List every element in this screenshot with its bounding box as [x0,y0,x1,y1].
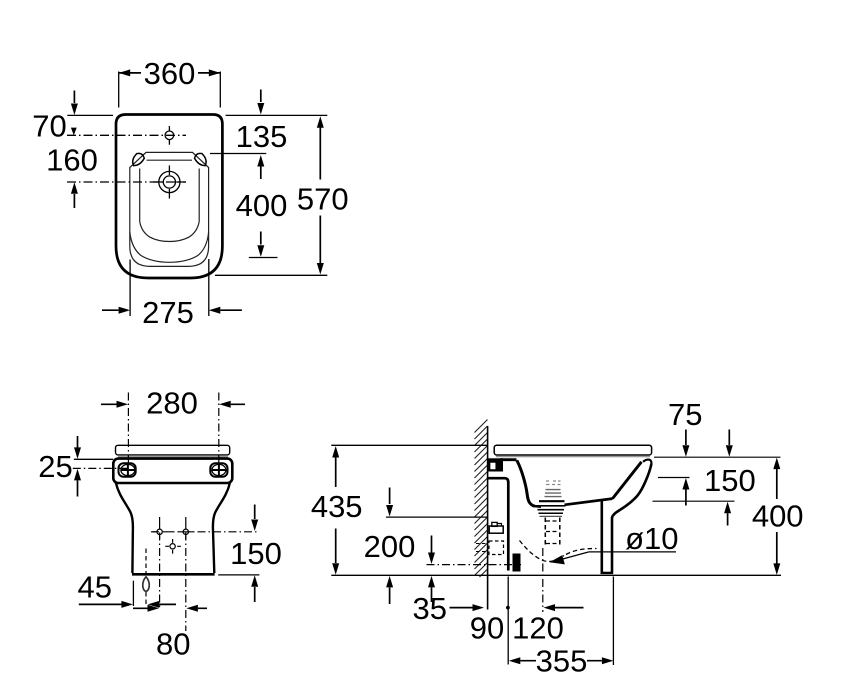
svg-text:360: 360 [144,56,196,91]
pedestal right side [213,483,230,573]
dim 75 up arrow [682,478,689,506]
dim 70 down arrow [71,91,78,116]
svg-text:135: 135 [236,119,288,154]
dim 570 bottom extension line [215,274,327,276]
extension line below pedestal front [507,577,509,665]
horizontal dash-dot through fixing holes [151,531,259,533]
leg left wall [600,501,603,573]
drain flange body bars [536,505,566,507]
svg-text:120: 120 [512,611,564,646]
node dot [506,606,510,610]
vertical dash-dot right fixing [185,517,187,631]
svg-text:280: 280 [146,386,198,421]
svg-text:150: 150 [230,536,282,571]
right top extension line [226,114,328,116]
svg-text:80: 80 [156,627,190,662]
lid shadow line [118,456,228,458]
dim 45 arrows [121,601,159,608]
flare outer edge [612,464,651,518]
svg-text:ø10: ø10 [625,521,678,556]
dim 45 extension line [132,581,134,606]
back notch (white) [490,462,497,470]
bolt hole right [210,463,227,477]
bowl seat curve [140,222,200,242]
wall face line [487,426,489,610]
line B deck extension [658,477,690,479]
dim 435 top arrow [332,446,339,487]
svg-text:45: 45 [77,570,111,605]
hidden trap dashed curve [520,541,597,562]
body top band [113,459,232,483]
svg-text:400: 400 [236,188,288,223]
vertical dash-dot left fixing [159,517,161,609]
rim slab shadow line [496,456,650,458]
chamfer facet left [133,153,145,165]
svg-text:355: 355 [536,644,588,679]
pedestal bottom extension (front right) [218,574,259,576]
leg right wall [611,517,614,572]
small crosshair (fixing hole) [165,126,174,145]
dim 280 arrows [117,401,231,408]
dim 35 down arrow [428,536,435,565]
dim 150 up arrow (side) [724,502,731,526]
diameter label leader underline [589,551,676,553]
chamfer facet right [195,153,207,165]
svg-text:435: 435 [311,489,363,524]
svg-text:75: 75 [668,397,702,432]
fixing crosshair middle [165,539,181,554]
bowl bottom left to drain flange [534,505,541,508]
wall hatching [475,420,488,578]
reference line for 200 [386,516,488,518]
drain flange top bar [539,500,565,502]
fixing crosshair right [179,525,194,540]
left top extension line [67,114,113,116]
dim 150 down arrow (side) [726,430,733,457]
dim 25 dash-dot line [73,467,127,469]
flare inner diagonal [613,462,642,499]
leg foot [601,572,614,574]
diameter leader line and arrow [550,552,589,565]
dim 360 arrows [119,69,221,76]
dim 25 up arrow [74,469,81,497]
dim 25 down arrow [74,436,81,459]
svg-text:90: 90 [470,611,504,646]
dim 70 small arrow at centerline [71,128,77,136]
dim 150 down arrow (front) [251,505,258,532]
pedestal left side [116,483,133,573]
dim 25 top extension line [74,458,113,460]
dim 75 down arrow [682,430,689,457]
fixing crosshair left [152,525,167,540]
bidet body outline (plan) [116,115,222,279]
pedestal bottom edge [132,573,215,576]
bowl back inner wall [517,460,535,506]
bowl front lower curve [130,232,209,262]
dash-dot line for 35 [427,564,522,566]
svg-text:200: 200 [364,529,416,564]
floor extension line [331,574,781,576]
line A rim-top extension [654,456,781,458]
bowl bottom right of flange [565,499,613,505]
dim 355 arrows [509,657,614,664]
dim 400 bottom extension line [249,257,278,259]
dim 570 line and arrows [317,116,324,179]
svg-text:570: 570 [297,182,349,217]
centerline dash-dot through tap hole [67,181,186,183]
dim 35/90 shared arrow to wall face [450,604,485,611]
dim 400 bottom arrow [257,232,264,257]
body back block at wall [488,458,504,471]
dim 360 extension lines [119,72,221,108]
top extension line (435) [331,444,487,446]
hidden tailpipe dashed [545,518,560,547]
svg-text:160: 160 [46,143,98,178]
drain teardrop [143,577,149,591]
dim 160 up arrow [71,182,78,208]
dim 200 down arrow [386,488,393,517]
bolt hole left [119,463,136,477]
svg-text:150: 150 [704,463,756,498]
hidden fixing dashed box [489,541,504,555]
dim 35 up arrow [428,576,435,602]
svg-text:275: 275 [142,295,194,330]
centerline dash-dot through small crosshair [67,134,186,136]
dim 275 arrows [119,307,221,314]
dim 80 arrows [148,605,198,612]
dim 200 up arrow [386,576,393,604]
dim 280 dash-dot extensions up from bolts [128,393,218,464]
svg-text:25: 25 [38,449,72,484]
flare top cap [643,460,651,464]
svg-text:70: 70 [32,109,66,144]
tap hole crosshair [153,166,186,199]
line C flare-bottom extension [653,500,735,502]
wall fixing screw icon [489,522,503,533]
drain dashed vertical [145,549,147,607]
tap plug above flange (grey bars) [545,490,562,497]
dim 275 extension lines [130,259,209,316]
rim slab (side) [494,445,651,455]
drain centerline below [542,548,544,612]
dim 400 top arrow [257,155,264,179]
svg-text:35: 35 [412,591,446,626]
dim 120 arrow [544,604,584,611]
extension line below leg back [612,577,614,666]
deck top edge [500,458,517,461]
lid bar [116,445,230,455]
svg-text:400: 400 [752,499,804,534]
rim top extension line [210,153,266,155]
wall fixing bracket (solid) [513,554,521,572]
dim 435 bottom arrow [332,529,339,575]
dim 150 up arrow (front) [251,575,258,602]
deck underside and pedestal front face [488,478,509,570]
rim outer line [130,152,209,266]
rim inner line [140,160,200,221]
dim 400 bottom arrow [773,532,780,575]
dim 135 down arrow [257,90,264,115]
dim 400 top arrow [773,458,780,499]
